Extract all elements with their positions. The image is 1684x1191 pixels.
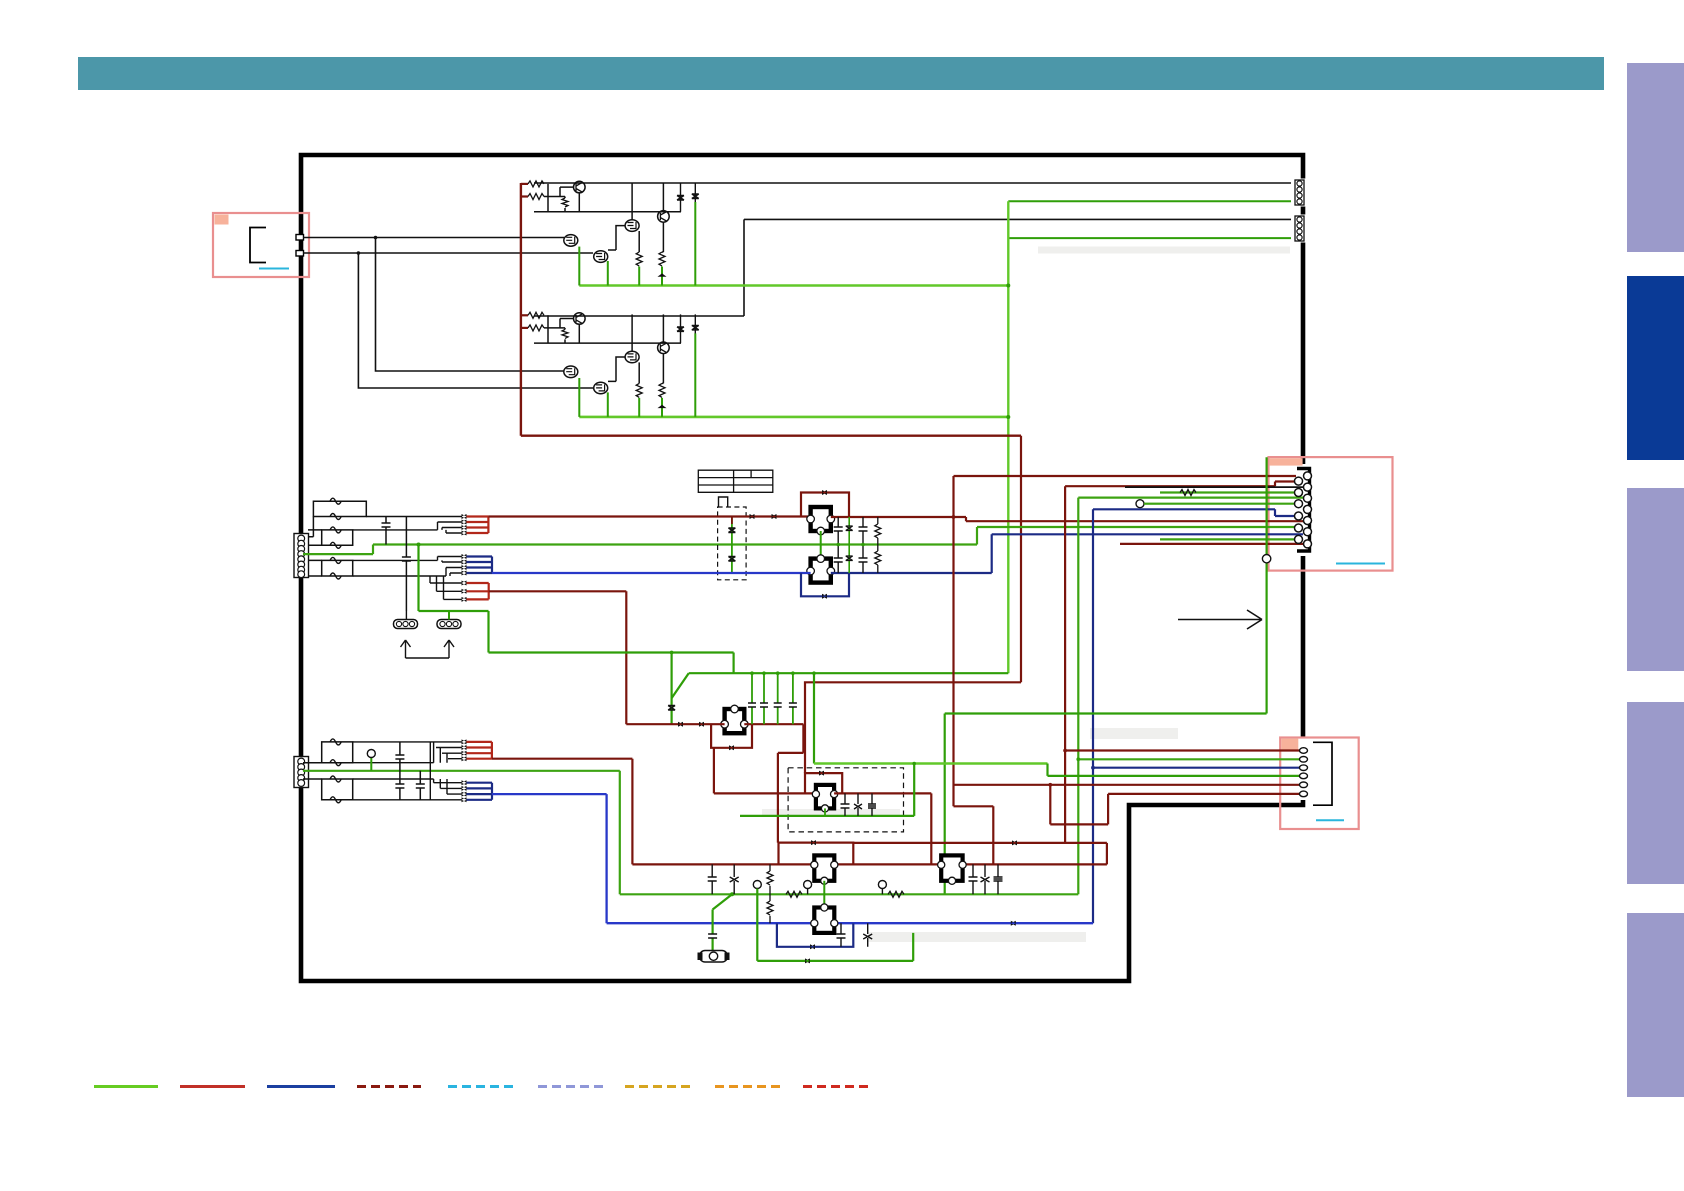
- maroon to CN2 pin R1: [954, 475, 1297, 477]
- green rail mid junction dots: [836, 543, 840, 547]
- CN2 pins right column: [1304, 472, 1312, 548]
- green rail bottom junctions: [730, 892, 734, 896]
- maroon vertical x1106.9: [1106, 843, 1108, 865]
- battery pill: [698, 951, 730, 963]
- maroon jumper over IC-C: [805, 773, 842, 793]
- wire P1 feed: [405, 611, 407, 620]
- green test stub: [370, 758, 372, 771]
- diode D2: [692, 183, 699, 203]
- arrow under P1: [401, 640, 411, 658]
- cap C6 vertical: [416, 771, 425, 800]
- choke L5: [322, 776, 353, 803]
- maroon CN3 pin6 branch: [1050, 785, 1300, 825]
- navy out of IC-B: [831, 534, 1303, 573]
- main board outline: [301, 155, 1303, 981]
- test circle T2: [878, 881, 886, 889]
- legend dashed red: [803, 1085, 869, 1088]
- cap C2 vertical: [402, 517, 411, 612]
- green vertical x914: [913, 764, 915, 816]
- wire bundle U1 black feeds: [438, 522, 462, 533]
- transistor Q3 FET: [564, 235, 578, 247]
- green to CN2 pin L2: [1160, 491, 1295, 493]
- resistor R2 (maroon stub 2): [521, 195, 528, 197]
- maroon feed to IC-C: [805, 682, 1021, 773]
- IC U7 (bridge G): [721, 705, 748, 733]
- diode mark on y843: [1012, 840, 1017, 845]
- green stub R4: [638, 267, 640, 286]
- green vertical x814: [813, 673, 815, 763]
- small notch box: [719, 497, 728, 507]
- blue stubs bundle L2: [467, 783, 493, 800]
- diode row D5: [846, 526, 853, 561]
- rail to pinblock PB: [744, 218, 1291, 220]
- navy CN3 pin3 line: [1093, 767, 1300, 769]
- green link D to E: [823, 881, 825, 908]
- red stubs bundle L1: [467, 742, 492, 759]
- diode D1: [677, 183, 684, 212]
- connector box CN3 (right bottom, pink): [1280, 738, 1359, 830]
- black wire to CN2 pin R2: [1125, 486, 1303, 488]
- resistor R4 vertical: [636, 252, 642, 266]
- diode mark on jumper: [822, 490, 827, 495]
- circle node on green: [1262, 555, 1270, 563]
- legend dashed periwinkle: [538, 1085, 603, 1088]
- resistor R7 vertical: [875, 517, 881, 573]
- cap mark on battery stub: [708, 934, 717, 938]
- maroon CN3 pin5 line: [954, 784, 1301, 786]
- CN1 pin 2: [296, 251, 304, 257]
- maroon into IC-G: [626, 723, 724, 725]
- wire Q5 gate link: [608, 226, 625, 250]
- cap/diode marks: [748, 703, 797, 707]
- wire choke L5 rails: [353, 748, 462, 800]
- junction dots on green rail: [750, 671, 754, 675]
- green wire from S2: [303, 771, 1078, 895]
- green stub Q3: [578, 247, 580, 286]
- green vertical x944: [944, 714, 946, 895]
- green stub D2: [694, 202, 696, 286]
- diode mark on E jumper: [810, 944, 815, 949]
- green branch x418.5 down: [419, 545, 1009, 674]
- diode marks on bottom green: [805, 958, 810, 963]
- wire P2 feed green: [448, 611, 450, 620]
- CN1 link underline cyan: [259, 268, 289, 270]
- cap C1 vertical: [382, 517, 391, 545]
- junction dot: [1048, 783, 1052, 787]
- legend solid blue: [267, 1085, 335, 1088]
- maroon bottom rail of driver blocks: [521, 435, 1021, 437]
- green stub from node: [757, 889, 913, 961]
- navy to CN2 pin L4: [1093, 509, 1295, 516]
- sidebar tab 2 active: [1627, 276, 1684, 460]
- wire S2 to chokes: [303, 763, 322, 779]
- legend solid red: [180, 1085, 245, 1088]
- faint watermark text rows: [762, 247, 1290, 943]
- resistor R5 vertical: [659, 252, 665, 266]
- power rail VCC2 (block2 top): [534, 315, 744, 317]
- wire Q5 source down: [638, 231, 640, 252]
- maroon CN3 pin1 line: [1065, 749, 1300, 751]
- transistor Q5 FET: [625, 220, 639, 232]
- junction dot: [374, 236, 378, 240]
- diode mark: [668, 706, 675, 711]
- cap stubs maroon-green x712 x734: [708, 864, 739, 894]
- maroon jumper under IC-G: [711, 724, 752, 748]
- IC U5 (bridge E): [811, 904, 838, 933]
- diode mark on C jumper: [819, 771, 824, 776]
- navy long from bundle L2: [492, 794, 1093, 923]
- maroon out of IC-G: [744, 724, 803, 842]
- maroon feed IC-G: [489, 591, 627, 724]
- green horizontal y763.5: [814, 762, 1048, 764]
- test circle T1: [804, 881, 812, 889]
- connector box CN1 (left, pink): [213, 213, 309, 277]
- resistor on L2 wire: [1180, 490, 1196, 496]
- connector strip S1 on left border: [294, 534, 309, 578]
- ground rail green: [579, 284, 1008, 287]
- maroon jumper over IC-A: [801, 493, 849, 518]
- maroon diode-arrow line y843: [853, 842, 1107, 844]
- wire bundle U2 black feeds: [438, 557, 462, 574]
- zigzag stubs x770: [767, 864, 773, 923]
- CN3 bracket: [1313, 742, 1332, 805]
- power rail VCC1 to pinblock PA: [534, 182, 1291, 184]
- green vertical through CN2: [1265, 457, 1267, 713]
- junction dot: [912, 762, 916, 766]
- choke L3: [322, 557, 353, 579]
- junction dot: [1063, 749, 1067, 753]
- cap/diode stubs green-to-G rail: [752, 673, 793, 724]
- wire Q1 emitter: [578, 193, 580, 212]
- connector strip S2 on left border: [294, 757, 309, 788]
- choke L2: [322, 527, 353, 548]
- CN1 bracket: [250, 228, 266, 263]
- junction dot: [357, 251, 361, 255]
- wire strip S1 to choke L1: [308, 517, 313, 537]
- green to CN2 pin L3: [1160, 503, 1295, 505]
- navy vertical x1093: [1092, 509, 1094, 923]
- maroon long from bundle L1: [492, 759, 633, 865]
- green trunk vertical: [1007, 201, 1009, 673]
- vertical black x430 lower: [429, 742, 431, 800]
- wire Q5 drain to rail: [631, 183, 633, 220]
- wire Q2 collector: [662, 183, 664, 211]
- green horizontal to x944: [945, 712, 1267, 714]
- green link between ICs: [820, 531, 822, 559]
- legend dashed mustard: [625, 1085, 691, 1088]
- junction dot: [1076, 757, 1080, 761]
- table block: [698, 470, 773, 492]
- diode pair marks bundle U3: [462, 581, 467, 602]
- sidebar tab 5: [1627, 913, 1684, 1097]
- IC U2 (H-bridge B): [807, 555, 835, 583]
- wire CN1 pin2 to Q4 base: [303, 252, 593, 254]
- red stubs bundle U1: [467, 517, 489, 534]
- green tint on cap stubs: [848, 517, 850, 573]
- wire CN1 pin2 branch down to Q4' base: [358, 253, 593, 388]
- green stub IC-C: [824, 808, 826, 816]
- choke L4: [322, 739, 353, 766]
- maroon wire to IC-A: [488, 515, 810, 517]
- navy jumper under IC-B: [801, 573, 849, 596]
- IC U1 (H-bridge A): [807, 507, 835, 535]
- IC U3 (bridge C): [812, 785, 837, 812]
- battery branch diagonal: [713, 894, 733, 951]
- sidebar tab 4: [1627, 702, 1684, 884]
- green wire from S1: [303, 545, 977, 555]
- navy jumper under IC-E: [777, 923, 853, 947]
- diode chain in DB1: [731, 517, 733, 574]
- wire bundle U3 black feeds: [430, 583, 462, 599]
- green to CN2 pin L6: [1160, 538, 1295, 540]
- diode marks on maroon: [750, 514, 777, 519]
- CN2 bracket: [1297, 469, 1310, 552]
- diode mark on navy jumper: [822, 594, 827, 599]
- wire Q2 emitter down: [662, 222, 663, 252]
- diode pair marks bundle L2: [462, 780, 467, 802]
- CN3 link underline cyan: [1316, 819, 1344, 821]
- transistor Q2: [658, 211, 670, 223]
- transistor Q1: [574, 181, 586, 193]
- green vertical x1078: [1077, 498, 1079, 895]
- diode mark on navy rail: [1011, 921, 1016, 926]
- arrow under P2: [444, 640, 454, 658]
- resistor R9 on green rail: [888, 891, 904, 897]
- choke L1: [313, 498, 366, 519]
- sidebar tab 3: [1627, 488, 1684, 671]
- diode mark on D jumper: [811, 840, 816, 845]
- navy wire to IC-B: [492, 572, 811, 574]
- diode pair marks bundle L1: [462, 739, 467, 761]
- CN1 pin 1: [296, 235, 304, 241]
- green to CN2 pin R3: [1078, 497, 1303, 499]
- resistor R1 (maroon stub 1): [521, 183, 528, 185]
- maroon rail bottom y864: [632, 863, 1107, 865]
- maroon jumper over IC-D: [779, 843, 854, 865]
- junction dots trunk: [952, 515, 956, 519]
- wire green to PA: [1008, 200, 1291, 202]
- pin block PB on border: [1294, 215, 1306, 243]
- maroon vertical x1065: [1064, 486, 1066, 843]
- wire base net: [534, 184, 681, 212]
- green step to CN2 pin L5: [977, 527, 1296, 545]
- caps right of IC-F: [969, 864, 1003, 894]
- wire choke L4 top rail: [353, 742, 462, 763]
- supply maroon vertical bus: [520, 183, 522, 436]
- wire CN1 pin1 to Q3 base: [303, 237, 564, 239]
- driver block 2: [521, 312, 1008, 417]
- diode mark on G jumper: [729, 745, 734, 750]
- green node circle: [753, 881, 761, 889]
- test point circle: [367, 750, 375, 758]
- CN2 link underline cyan: [1336, 563, 1385, 565]
- blue stubs bundle U2: [467, 557, 493, 574]
- cap C4: [859, 517, 868, 573]
- maroon to CN2 pin R7: [1120, 543, 1303, 545]
- dashed box DB1: [718, 507, 747, 580]
- diode D3 small: [659, 274, 665, 276]
- resistor R3 vertical: [562, 198, 568, 207]
- test stub T2: [881, 889, 883, 895]
- dashed box DB2: [788, 768, 903, 832]
- wire CN1 pin1 branch down to Q3' base: [376, 238, 565, 372]
- maroon out of IC-A: [831, 517, 1303, 521]
- sidebar tab 1: [1627, 63, 1684, 252]
- maroon out of IC-C: [834, 793, 931, 864]
- maroon to CN2 pin L1: [1065, 482, 1294, 487]
- diode pair marks bundle U1: [462, 514, 467, 536]
- green stub Q4: [607, 261, 609, 286]
- cap row after IC-A C3: [834, 517, 843, 573]
- green diagonal: [672, 673, 689, 698]
- wire choke L1 out: [366, 516, 462, 518]
- resistor R8 on green rail: [786, 891, 802, 897]
- maroon trunk x953: [954, 476, 994, 864]
- wire vertical link x744: [743, 219, 745, 316]
- transistor Q4 FET: [594, 251, 608, 263]
- legend dashed cyan: [448, 1085, 513, 1088]
- cap C5 vertical: [395, 742, 404, 800]
- bracket joining arrows: [406, 657, 450, 659]
- test circle on L3 wire: [1136, 500, 1144, 508]
- legend dashed dark red: [357, 1085, 421, 1088]
- CN3 pins: [1300, 748, 1308, 797]
- green step to CN3 pin4: [1048, 764, 1301, 776]
- header teal bar: [78, 57, 1604, 90]
- diode marks on IC-G feed: [678, 722, 704, 727]
- maroon feed IC-C: [714, 748, 815, 794]
- green stub with diode to IC-G rail: [670, 653, 672, 725]
- maroon vertical x1021: [1020, 436, 1022, 683]
- legend dashed orange: [715, 1085, 781, 1088]
- pin block PA on border: [1294, 179, 1306, 207]
- caps right of IC-E: [837, 923, 873, 947]
- green rail in DB2: [740, 815, 914, 817]
- red stubs bundle U3: [467, 583, 489, 599]
- wire choke outputs mesh: [353, 522, 450, 599]
- diode pair marks bundle U2: [462, 554, 467, 576]
- pill connector P2: [437, 620, 461, 629]
- pill connector P1: [394, 620, 418, 629]
- green CN3 pin2 line: [1078, 758, 1300, 760]
- reference arrow: [1178, 610, 1262, 629]
- connector box CN2 (right middle, pink): [1269, 457, 1393, 570]
- IC U4 (bridge D): [811, 855, 838, 884]
- legend solid green: [94, 1085, 158, 1088]
- IC U6 (bridge F): [938, 855, 967, 884]
- junction dot: [1091, 766, 1095, 770]
- test stub T1: [807, 889, 809, 895]
- driver block 1: [521, 181, 1008, 286]
- wire strip to L2/L3: [308, 530, 322, 576]
- green stub R5: [661, 267, 663, 286]
- wire green to PB: [1008, 237, 1291, 239]
- CN2 pins left column: [1295, 477, 1303, 543]
- cap/diode stubs in DB2: [841, 793, 877, 816]
